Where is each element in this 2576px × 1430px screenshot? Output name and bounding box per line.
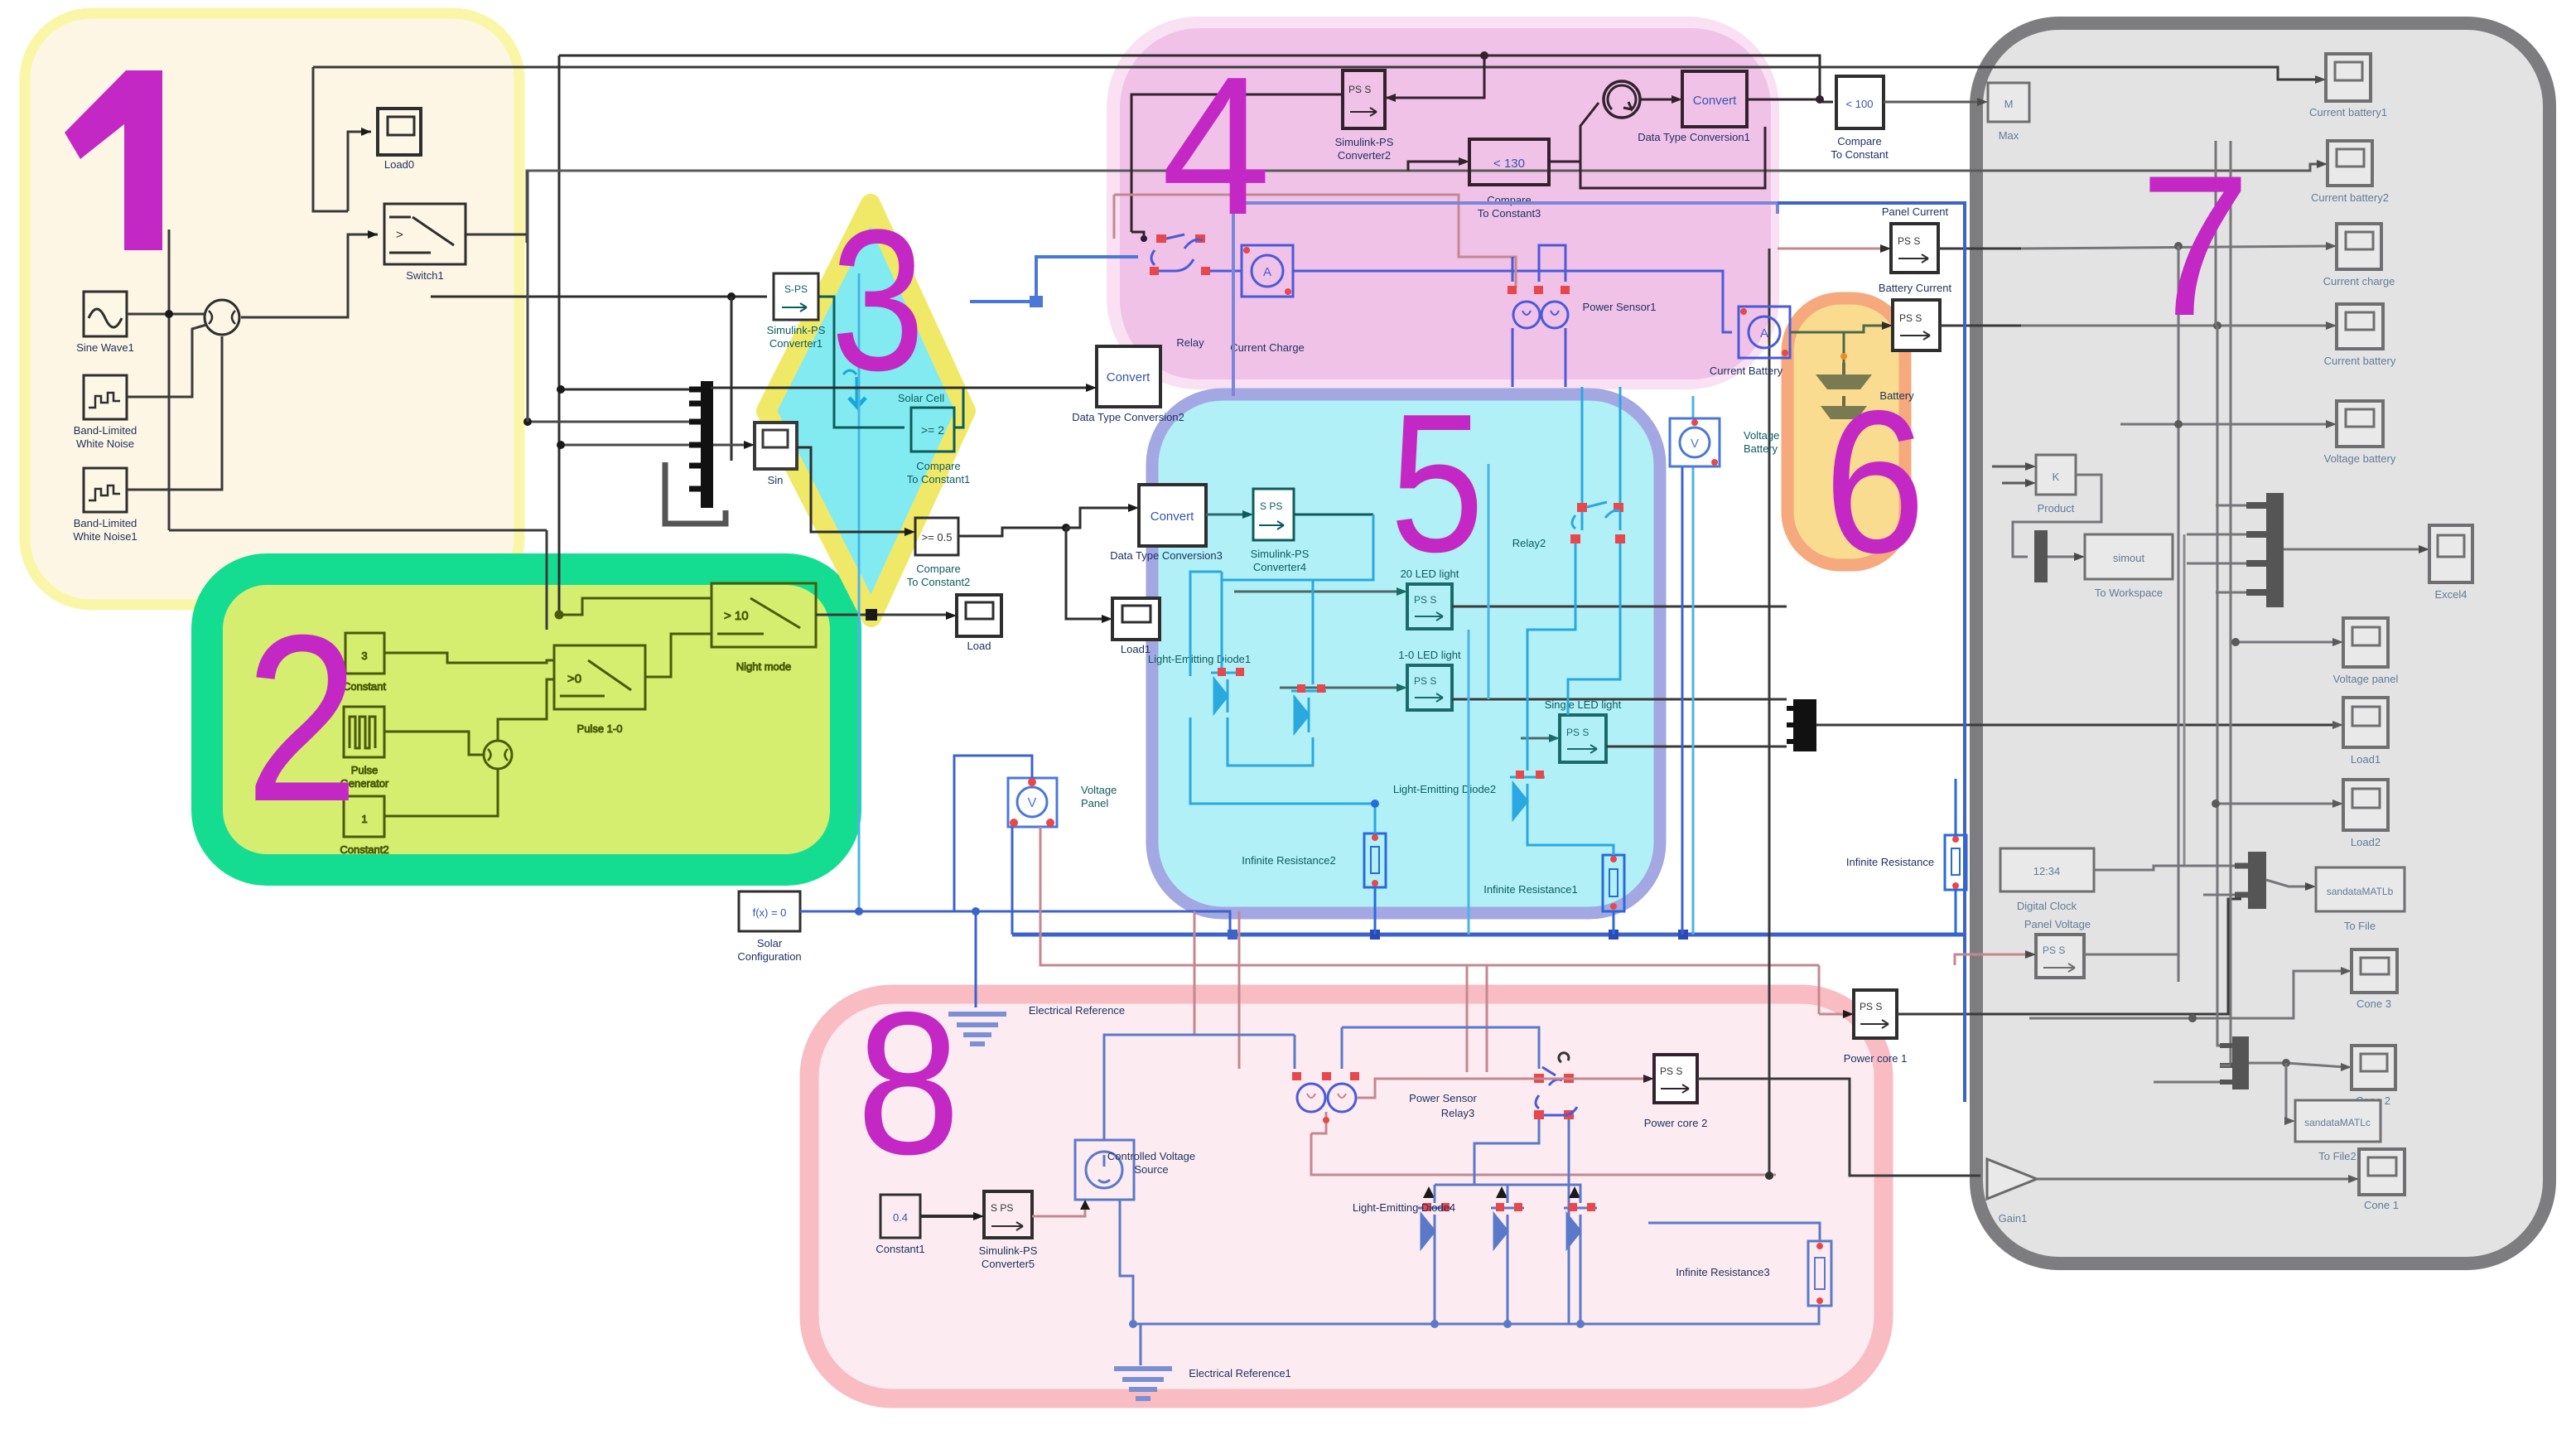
svg-text:Data Type Conversion1: Data Type Conversion1 [1638, 131, 1750, 143]
svg-text:Relay3: Relay3 [1441, 1107, 1474, 1119]
svg-text:Data Type Conversion2: Data Type Conversion2 [1072, 411, 1184, 423]
svg-text:PS S: PS S [1566, 727, 1589, 738]
wire constant2 to product [384, 769, 498, 816]
scope Current battery2 [2311, 141, 2389, 204]
relay Relay2 [1512, 502, 1625, 549]
svg-text:5: 5 [1390, 374, 1484, 594]
wire mux out to sin [713, 444, 748, 447]
wire mux to DTC2 [711, 387, 1090, 389]
diode triple group [1353, 1186, 1597, 1248]
scope Current battery1 [2309, 54, 2387, 118]
wire single LED row [1521, 737, 1553, 740]
scope Excel4 [2429, 525, 2472, 601]
svg-text:Load1: Load1 [1121, 643, 1151, 655]
svg-text:Panel: Panel [1081, 797, 1108, 809]
product junction circle [205, 300, 239, 335]
svg-text:S PS: S PS [1260, 500, 1282, 512]
wire sensor risers blue [1512, 257, 1514, 282]
wire pulse out to night switch [645, 634, 712, 677]
wire sensor to power core2 rosy [1357, 1079, 1647, 1098]
converter Data Type Conversion2 [1072, 346, 1184, 423]
resistor Infinite Resistance1 [1483, 855, 1624, 911]
svg-text:Electrical Reference: Electrical Reference [1029, 1004, 1125, 1017]
ground Electrical Reference [948, 1004, 1125, 1044]
svg-text:1-0 LED light: 1-0 LED light [1398, 649, 1461, 661]
converter Panel Current [1882, 205, 1949, 273]
wire diamond bottom to load [946, 611, 957, 620]
block To File2 [2295, 1100, 2381, 1162]
wire cvs top blue loop [1104, 1035, 1295, 1140]
wire product to switch [241, 234, 378, 317]
svg-text:To File2: To File2 [2318, 1150, 2357, 1162]
block Product [2036, 455, 2076, 515]
wire dark vertical long [1768, 249, 1771, 1176]
wire compare1 out [954, 389, 963, 428]
wire bus C into compare3 [1408, 162, 1463, 171]
switch Switch1 [384, 204, 466, 282]
svg-text:K: K [2053, 471, 2060, 483]
svg-text:>= 2: >= 2 [921, 423, 944, 437]
scope Load1 [1112, 598, 1160, 655]
svg-text:< 100: < 100 [1846, 98, 1874, 110]
junction bus 3 [1609, 930, 1618, 940]
wire vertical from bus A to night mode [559, 56, 582, 615]
wire resistor top blue [1580, 1185, 1820, 1241]
wire ground1 riser [1140, 1324, 1142, 1365]
converter Data Type Conversion3 [1110, 485, 1223, 562]
wire pulse gen to product [384, 732, 484, 755]
wire DTC3 to PS4 [1206, 514, 1247, 516]
wire relay top blue loop [1131, 232, 1144, 239]
converter Panel Voltage PS-S [2036, 935, 2084, 978]
svg-text:Converter1: Converter1 [769, 337, 822, 350]
svg-text:Electrical Reference1: Electrical Reference1 [1189, 1367, 1291, 1379]
svg-text:Cone 3: Cone 3 [2357, 998, 2391, 1010]
wire vertical bus B left drop [313, 67, 348, 211]
wire clock out [2094, 866, 2241, 870]
wire switch1 to bus C [466, 234, 527, 243]
svg-text:Infinite Resistance: Infinite Resistance [1846, 856, 1934, 868]
svg-text:Current Charge: Current Charge [1230, 341, 1305, 354]
region 6 highlight (wheat, orange border) [1787, 298, 1905, 565]
wire into power core1 [1776, 1014, 1847, 1175]
svg-text:Digital Clock: Digital Clock [2017, 900, 2077, 912]
svg-text:To Constant3: To Constant3 [1478, 207, 1541, 220]
mux1 input ticks [689, 389, 701, 489]
junction night [555, 611, 563, 619]
wire panel current out [1938, 80, 2054, 249]
compare block Compare To Constant (outside pink) [1831, 76, 1889, 161]
scope Load1 gray [2343, 698, 2388, 766]
region 5 highlight (light cyan, periwinkle border) [1152, 394, 1660, 913]
svg-text:Battery Current: Battery Current [1879, 282, 1952, 294]
svg-text:Voltage panel: Voltage panel [2333, 673, 2399, 685]
switch Night mode [712, 583, 816, 673]
block Convert1 [1638, 71, 1750, 143]
svg-text:White Noise1: White Noise1 [73, 530, 137, 543]
resistor Infinite Resistance3 [1676, 1241, 1831, 1306]
wire rosy vertical C [1466, 965, 1469, 1072]
block To Workspace [2085, 534, 2173, 599]
mux1 bar [701, 381, 713, 508]
region 8 highlight (light pink, salmon border) [809, 994, 1884, 1399]
ammeter Current Charge [1230, 245, 1305, 354]
source Band-Limited White Noise [74, 375, 137, 450]
wire blue loop along region7 left [1778, 203, 1965, 1102]
wire into current charge [2021, 240, 2330, 249]
svg-text:Load2: Load2 [2351, 836, 2381, 848]
svg-text:A: A [1760, 326, 1768, 341]
wire mux2 out [1816, 724, 2337, 727]
wire drop to mux [731, 297, 733, 461]
wire product loop [2013, 475, 2101, 557]
wire to file2 feed [2286, 1063, 2289, 1121]
wire blwn to product [127, 325, 206, 397]
wire into Load0 [348, 132, 371, 211]
region 1 highlight (cream, yellow border) [25, 13, 519, 605]
svg-text:sandataMATLb: sandataMATLb [2327, 886, 2394, 897]
converter 1-0 LED light [1398, 649, 1461, 710]
svg-text:6: 6 [1824, 369, 1926, 595]
wire solar cell loop [863, 427, 904, 429]
power sensors pair region8 [1292, 1072, 1477, 1119]
numeral 1 [65, 70, 162, 250]
wire rosy vertical D [1486, 965, 1488, 1072]
resistor Infinite Resistance (outside right) [1846, 835, 1966, 890]
svg-text:Light-Emitting Diode1: Light-Emitting Diode1 [1148, 653, 1251, 665]
junction cvs bottom [1129, 1320, 1137, 1328]
wire into current battery [2021, 325, 2330, 327]
wire diode tops blue [1435, 1185, 1474, 1203]
converter Power core 2 [1644, 1055, 1708, 1129]
diode Light-Emitting Diode2 [1291, 684, 1326, 732]
compare block Compare To Constant3 [1469, 139, 1549, 220]
junction diamond bottom [866, 609, 877, 621]
svg-text:Relay: Relay [1176, 336, 1204, 349]
converter Double PS Converter2 [1335, 70, 1394, 162]
wire relay to ammeter [1210, 270, 1242, 273]
svg-text:Simulink-PS: Simulink-PS [979, 1244, 1038, 1257]
svg-text:0.4: 0.4 [893, 1211, 908, 1224]
converter Single LED light [1545, 698, 1622, 762]
source Band-Limited White Noise1 [73, 468, 137, 543]
wire sin to compare2 [797, 447, 909, 532]
svg-text:3: 3 [361, 650, 367, 662]
converter Power core 1 [1844, 990, 1908, 1065]
converter Data Type Conversion circle [1604, 81, 1640, 118]
wire voltage panel drop [1011, 827, 1014, 935]
wire into voltage battery [2120, 423, 2330, 426]
svg-text:Data Type Conversion3: Data Type Conversion3 [1110, 549, 1223, 562]
constant Constant2 [340, 796, 388, 856]
wire cone3 feed [2029, 971, 2345, 1018]
region 4 highlight (pink/orchid) [1107, 17, 1779, 389]
svg-text:Infinite Resistance3: Infinite Resistance3 [1676, 1266, 1769, 1278]
svg-text:PS S: PS S [1414, 675, 1436, 687]
block Solar Configuration [737, 891, 801, 963]
scope Voltage panel [2333, 618, 2399, 685]
svg-text:Sin: Sin [768, 474, 784, 486]
wire compare3 out up to DTC1 [1549, 103, 1599, 162]
converter Battery Current [1879, 282, 1952, 350]
svg-text:PS S: PS S [1660, 1065, 1682, 1077]
wire relay3 bottoms blue [1474, 1119, 1539, 1185]
relay Relay3 icon [1534, 1053, 1577, 1119]
svg-text:M: M [2004, 98, 2014, 110]
junction [165, 310, 173, 318]
svg-text:Compare: Compare [916, 563, 960, 575]
junction bus 1 [1228, 930, 1237, 940]
wire voltage panel bottom rosy [1040, 827, 1819, 965]
wire sky loop left [1222, 515, 1373, 580]
demux bar small [2034, 530, 2048, 582]
wire night out to diamond [816, 614, 950, 616]
svg-text:12:34: 12:34 [2033, 865, 2061, 877]
svg-text:< 130: < 130 [1493, 157, 1525, 171]
scope Cone 2 [2352, 1046, 2395, 1107]
wire battery current out [1940, 325, 2021, 327]
svg-text:Converter2: Converter2 [1338, 149, 1391, 162]
svg-text:To File: To File [2344, 920, 2376, 932]
wire region1 bottom long [169, 529, 547, 532]
source Controlled Voltage Source [1075, 1140, 1195, 1200]
battery Battery [1816, 363, 1914, 419]
svg-text:Max: Max [1999, 129, 2019, 142]
scope Load [957, 595, 1001, 652]
block Digital Clock [2000, 848, 2094, 912]
svg-text:To Constant: To Constant [1831, 148, 1889, 161]
svg-text:Compare: Compare [916, 460, 960, 472]
wire constant1 to converter5 [920, 1215, 977, 1218]
wire sensor drop B [1565, 328, 1567, 387]
svg-text:Converter4: Converter4 [1253, 561, 1306, 573]
mux2 bar [1793, 699, 1816, 751]
wire mux4 out [2249, 1063, 2345, 1067]
wire voltage panel top [954, 756, 1032, 911]
svg-text:sandataMATLc: sandataMATLc [2304, 1117, 2371, 1128]
svg-text:8: 8 [856, 969, 960, 1196]
wire solar config blue [800, 911, 976, 1007]
wire x675 into pulse switch top [558, 615, 560, 645]
scope Load2 gray [2343, 780, 2388, 848]
wire drop into green region [546, 530, 548, 630]
subsystem Sin [755, 423, 797, 486]
svg-text:Voltage battery: Voltage battery [2324, 452, 2396, 465]
scope Cone 1 [2359, 1149, 2405, 1211]
relay Relay [1141, 234, 1210, 349]
wire ammeter to battery [1790, 332, 1844, 363]
wire converter5 to cvs rosy [1032, 1205, 1085, 1216]
svg-text:Convert: Convert [1693, 94, 1737, 108]
resistor Infinite Resistance2 [1242, 833, 1386, 887]
region 7 highlight (gray, dark gray border) [1976, 23, 2549, 1263]
svg-text:Simulink-PS: Simulink-PS [1335, 136, 1394, 148]
mux big bar [2266, 493, 2284, 607]
svg-text:Controlled Voltage: Controlled Voltage [1107, 1150, 1195, 1162]
diode Light-Emitting Diode1 [1148, 653, 1251, 713]
scope Load0 [378, 109, 421, 171]
svg-text:f(x) = 0: f(x) = 0 [753, 906, 787, 919]
switch Pulse 1-0 [554, 645, 645, 735]
source Sine Wave1 [76, 292, 134, 354]
svg-text:Current battery2: Current battery2 [2311, 191, 2389, 204]
wire cvs bottom blue [1120, 1200, 1416, 1365]
wire mux3 out [2266, 880, 2309, 887]
constant Constant [343, 633, 386, 693]
svg-text:Compare: Compare [1837, 135, 1881, 147]
wire vertical x204 [168, 229, 171, 530]
svg-text:To Workspace: To Workspace [2095, 587, 2163, 599]
scope Voltage battery [2324, 401, 2396, 465]
svg-text:1: 1 [361, 813, 367, 825]
svg-text:>= 0.5: >= 0.5 [922, 531, 953, 543]
wire periwinkle compare3 drop [1233, 203, 1778, 214]
svg-text:PS S: PS S [1414, 594, 1436, 606]
wire blwn1 to product [127, 336, 222, 490]
scope Current battery [2324, 304, 2396, 367]
svg-text:Converter5: Converter5 [982, 1258, 1035, 1270]
wire staircase thick [665, 462, 726, 524]
wire split down to Load1 [1066, 528, 1106, 619]
svg-text:Current Battery: Current Battery [1710, 365, 1783, 377]
wire gain out [2037, 1178, 2352, 1181]
wire demux to workspace [2048, 556, 2078, 558]
wire sine row to solar cell converter [431, 296, 767, 298]
svg-text:V: V [1691, 437, 1699, 451]
svg-text:Convert: Convert [1107, 370, 1151, 384]
wire into load2 [2216, 803, 2337, 805]
wire power core2 out [1697, 1079, 1980, 1176]
wire Convert1 out right [1747, 99, 1820, 101]
svg-text:Configuration: Configuration [737, 950, 801, 963]
wire power core1 out [1897, 899, 2241, 1014]
svg-text:Current charge: Current charge [2323, 275, 2395, 287]
svg-text:V: V [1028, 796, 1037, 810]
svg-text:PS S: PS S [1860, 1001, 1882, 1012]
svg-text:PS S: PS S [1348, 84, 1371, 95]
svg-text:Sine Wave1: Sine Wave1 [76, 341, 134, 354]
wire blue from diamond to relay [970, 257, 1138, 302]
scope Cone 3 [2352, 949, 2397, 1010]
vertical gray long 3 [2230, 141, 2232, 1065]
wire max feed verticals [2029, 102, 2216, 141]
wire blue loop top region8 [1294, 1035, 1296, 1069]
wire rosy relay riser [1113, 195, 1116, 239]
svg-text:Source: Source [1134, 1163, 1168, 1176]
svg-text:Simulink-PS: Simulink-PS [767, 324, 826, 336]
svg-text:Panel Voltage: Panel Voltage [2024, 918, 2091, 930]
wire into max [1884, 101, 1981, 104]
mux3 bar [2248, 852, 2266, 909]
wire solar blue feed to bus [976, 911, 1230, 935]
wire 20LED row gray [1234, 591, 1401, 593]
wires sky blue network left [1190, 572, 1222, 676]
wire BPS4 out [1294, 514, 1373, 516]
wire constant to pulse switch [384, 653, 554, 663]
svg-text:Battery: Battery [1744, 442, 1778, 455]
svg-text:Panel Current: Panel Current [1882, 205, 1949, 218]
wire top bus B [313, 67, 2319, 80]
meter Voltage Battery [1670, 418, 1779, 466]
svg-text:Band-Limited: Band-Limited [74, 424, 137, 437]
svg-text:White Noise: White Noise [76, 437, 134, 450]
wire battery to panel current [1844, 362, 1855, 364]
junction bus A [1480, 51, 1488, 60]
svg-text:Load0: Load0 [384, 158, 414, 171]
source Pulse Generator [340, 707, 389, 790]
wire blue right verticals [1681, 464, 1684, 935]
svg-text:Simulink-PS: Simulink-PS [1251, 548, 1310, 560]
region 3 highlight (cyan diamond, yellow border) [766, 204, 966, 617]
svg-text:S-PS: S-PS [784, 283, 808, 295]
solar cell arrow icon [843, 370, 866, 407]
wire blue bus main [1012, 933, 1965, 937]
wire rosy drop B [1238, 911, 1241, 1069]
wire diode chain bottom [1434, 1248, 1436, 1324]
svg-text:2: 2 [245, 586, 359, 852]
wire BPS2 left to relay drop [1131, 94, 1343, 232]
svg-text:Night mode: Night mode [736, 660, 791, 673]
wire sine to product [127, 313, 205, 316]
svg-text:Convert: Convert [1151, 510, 1194, 524]
wire into mux ticks [561, 389, 689, 391]
svg-text:>0: >0 [567, 672, 581, 686]
svg-text:Voltage: Voltage [1744, 429, 1779, 442]
svg-text:Switch1: Switch1 [406, 269, 444, 282]
wire convert1 loop down [1580, 127, 1765, 188]
junction bus 2 [1370, 930, 1380, 940]
converter 20 LED light [1401, 568, 1459, 629]
wire relay2 top feeds [1581, 387, 1584, 503]
block Max [1988, 83, 2029, 142]
svg-text:Excel4: Excel4 [2434, 588, 2467, 601]
mux4 bar [2232, 1036, 2249, 1089]
compare block Compare To Constant2 [907, 518, 971, 588]
ammeter Current Battery [1710, 307, 1790, 377]
svg-text:Load1: Load1 [2351, 753, 2381, 766]
wire mux big out [2284, 548, 2423, 551]
svg-text:Voltage: Voltage [1081, 784, 1117, 796]
svg-text:Band-Limited: Band-Limited [74, 517, 137, 529]
svg-text:Gain1: Gain1 [1999, 1212, 2028, 1225]
svg-text:simout: simout [2113, 552, 2145, 564]
wire rosy drop A [1194, 911, 1196, 1035]
junction solar feed [727, 292, 736, 301]
wire top bus A [559, 56, 1833, 102]
wire into voltage panel scope [2236, 641, 2337, 644]
wire ammeter out long blue [1293, 271, 1732, 332]
wire product up to switch mid [498, 679, 554, 741]
svg-text:Current battery: Current battery [2324, 355, 2396, 367]
wire bottom blue bus [1133, 1323, 1580, 1326]
svg-text:Infinite Resistance2: Infinite Resistance2 [1242, 854, 1335, 867]
wire compare2 out to split [958, 528, 1066, 536]
svg-text:PS S: PS S [1899, 312, 1922, 324]
wire BPS2 right up to bus [1385, 56, 1484, 98]
svg-text:4: 4 [1161, 36, 1271, 256]
svg-text:To Constant1: To Constant1 [907, 473, 971, 486]
region 2 highlight (yellow-green, spring green border) [207, 569, 846, 870]
block To File [2316, 867, 2405, 932]
wire rosy long [1114, 195, 1516, 288]
converter Double PS Converter1 [767, 273, 826, 350]
ground Electrical Reference1 [1114, 1367, 1291, 1399]
product circle region2 [484, 741, 512, 769]
svg-text:Cone 1: Cone 1 [2364, 1199, 2399, 1211]
svg-text:>: > [396, 228, 403, 242]
svg-text:To Constant2: To Constant2 [907, 576, 971, 588]
wire night top input [559, 598, 712, 615]
